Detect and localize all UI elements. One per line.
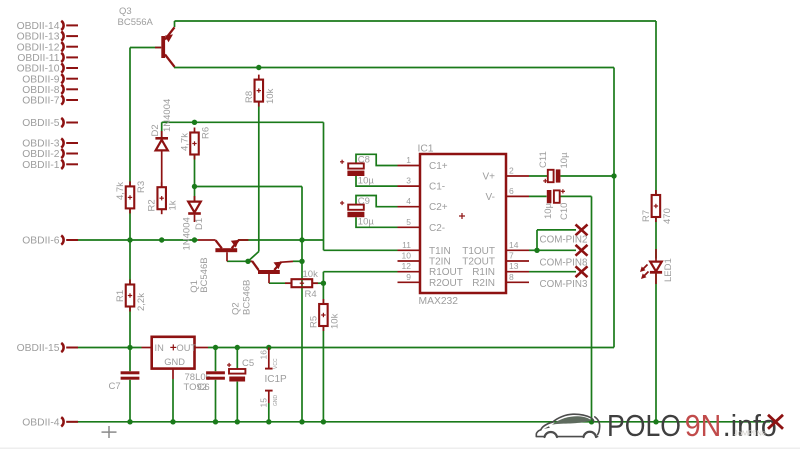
transistor Q1 BC546B — [215, 240, 248, 261]
svg-text:8: 8 — [509, 272, 514, 282]
connector pin OBDII-9 — [61, 74, 78, 83]
junction C5 top — [235, 345, 240, 350]
svg-text:C9: C9 — [358, 196, 370, 207]
wire R1IN net — [529, 271, 576, 273]
wire C6 leads — [215, 348, 217, 422]
svg-text:C2-: C2- — [429, 223, 445, 234]
capacitor C9 wiring — [356, 196, 398, 228]
wire COM-PIN2 net — [529, 230, 576, 250]
resistor R5 — [319, 299, 328, 331]
svg-text:R1OUT: R1OUT — [429, 267, 463, 278]
junction C6 top — [213, 345, 218, 350]
svg-text:1N4004: 1N4004 — [162, 99, 173, 132]
svg-text:Q2: Q2 — [230, 302, 241, 315]
capacitor C11 wiring — [529, 175, 614, 177]
svg-text:LED1: LED1 — [663, 258, 674, 282]
bottom faint separator line — [0, 447, 800, 449]
svg-text:C11: C11 — [538, 151, 549, 168]
svg-text:OBDII-6: OBDII-6 — [22, 236, 59, 247]
svg-text:470: 470 — [662, 208, 673, 224]
resistor R3 — [126, 181, 135, 213]
svg-text:4: 4 — [406, 196, 411, 206]
svg-text:R2IN: R2IN — [472, 278, 495, 289]
svg-text:R6: R6 — [201, 127, 212, 139]
svg-text:OBDII-7: OBDII-7 — [22, 96, 59, 107]
resistor R7 — [652, 190, 661, 222]
svg-text:11: 11 — [402, 240, 411, 250]
svg-text:T2IN: T2IN — [429, 257, 451, 268]
svg-text:15: 15 — [258, 398, 268, 408]
connector pin OBDII-3 — [61, 138, 78, 147]
ground plus marker — [102, 426, 117, 438]
logo car silhouette — [536, 414, 599, 437]
junction rail IC1P GND — [266, 419, 271, 424]
pin 4 stub — [398, 206, 421, 208]
connector pin OBDII-6 — [61, 235, 78, 244]
svg-text:10k: 10k — [265, 88, 276, 104]
svg-text:R7: R7 — [641, 210, 652, 222]
svg-text:D1: D1 — [194, 218, 205, 230]
capacitor C11 — [543, 169, 560, 183]
svg-text:COM-PIN3: COM-PIN3 — [540, 279, 588, 290]
junction IC1P VCC — [266, 345, 271, 350]
svg-text:OBDII-4: OBDII-4 — [22, 417, 59, 428]
wire Q2 base to R4 — [269, 282, 292, 284]
svg-text:IC1: IC1 — [418, 144, 434, 155]
junction rail R5 — [321, 419, 326, 424]
svg-text:6: 6 — [509, 186, 514, 196]
svg-text:OBDII-5: OBDII-5 — [22, 118, 59, 129]
junction R3 bottom — [127, 237, 132, 242]
capacitor C6 — [206, 371, 225, 379]
svg-text:10µ: 10µ — [358, 217, 375, 228]
svg-text:9: 9 — [406, 272, 411, 282]
svg-text:OBDII-12: OBDII-12 — [17, 42, 60, 53]
svg-text:COM-PIN2: COM-PIN2 — [540, 235, 588, 246]
svg-text:13: 13 — [509, 261, 519, 271]
svg-text:GND: GND — [164, 357, 185, 367]
LED1 — [640, 249, 662, 284]
svg-text:POLO: POLO — [607, 409, 681, 443]
junction R2 bottom — [159, 237, 164, 242]
svg-text:R1IN: R1IN — [472, 267, 495, 278]
junction C7 top — [127, 345, 132, 350]
junction rail C6 — [213, 419, 218, 424]
wire x130 column — [129, 209, 131, 348]
connector pin OBDII-1 — [61, 160, 78, 169]
svg-text:C10: C10 — [559, 203, 570, 220]
svg-text:T1IN: T1IN — [429, 246, 451, 257]
svg-text:OBDII-1: OBDII-1 — [22, 160, 59, 171]
pin 6 stub — [506, 195, 529, 197]
svg-text:10k: 10k — [329, 313, 340, 329]
junction Q1 base — [245, 259, 250, 264]
IC1P GND pin 15 — [265, 391, 273, 422]
svg-text:OBDII-9: OBDII-9 — [22, 74, 59, 85]
transistor Q3 BC556A — [155, 27, 175, 67]
svg-text:BC556A: BC556A — [118, 17, 154, 28]
junction C11 V+ x614 — [611, 173, 616, 178]
junction D1 R6 — [192, 184, 197, 189]
svg-text:1k: 1k — [168, 200, 179, 210]
svg-text:5: 5 — [406, 217, 411, 227]
X open end COM-PIN2 lower — [576, 245, 588, 256]
wire right vertical R7 net — [655, 21, 657, 422]
pin 12 stub — [398, 271, 421, 273]
svg-text:10µ: 10µ — [559, 152, 570, 169]
svg-text:OBDII-2: OBDII-2 — [22, 149, 59, 160]
svg-text:.info: .info — [723, 409, 777, 443]
pin 8 stub — [506, 281, 529, 283]
voltage regulator 78L05 box — [142, 337, 209, 369]
wire 78L05 GND lead — [172, 369, 174, 422]
wire D1 top net y186 — [195, 155, 303, 422]
wire R8 bottom to Q1 base diagonal — [248, 102, 259, 262]
svg-text:C6: C6 — [198, 382, 210, 393]
svg-text:V+: V+ — [482, 172, 495, 183]
svg-text:3: 3 — [406, 176, 411, 186]
svg-text:C5: C5 — [242, 358, 254, 369]
junction rail C7 — [127, 419, 132, 424]
svg-text:C8: C8 — [358, 155, 370, 166]
resistor R2 — [157, 182, 166, 214]
wire Q3 base net — [130, 48, 161, 188]
svg-text:R2: R2 — [147, 199, 158, 211]
connector pin OBDII-14 — [61, 21, 78, 30]
svg-text:IN: IN — [155, 343, 164, 353]
junction R4 R5 — [321, 281, 326, 286]
svg-text:12: 12 — [402, 261, 412, 271]
junction R6 top — [192, 120, 197, 125]
svg-text:VCC: VCC — [273, 358, 279, 369]
connector pin OBDII-2 — [61, 149, 78, 158]
svg-text:GND: GND — [273, 395, 279, 407]
junction rail 78L05 GND — [170, 419, 175, 424]
svg-text:7: 7 — [509, 251, 514, 261]
resistor R1 — [126, 280, 135, 312]
junction rail C5 — [235, 419, 240, 424]
pin 5 stub — [398, 226, 421, 228]
X open end R1IN — [576, 266, 588, 277]
pin 14 stub — [506, 249, 529, 251]
wire Q3 collector net — [174, 67, 614, 348]
svg-text:2,2k: 2,2k — [136, 293, 147, 311]
diode D1 1N4004 — [188, 196, 201, 222]
svg-text:10k: 10k — [303, 269, 319, 280]
svg-text:R3: R3 — [136, 181, 147, 193]
IC1P VCC pin 16 — [265, 348, 273, 369]
connector pin OBDII-12 — [61, 42, 78, 51]
svg-text:4,7k: 4,7k — [180, 133, 191, 151]
connector pin OBDII-7 — [61, 95, 78, 104]
svg-text:OBDII-8: OBDII-8 — [22, 85, 59, 96]
svg-text:MAX232: MAX232 — [419, 296, 459, 307]
pin 2 stub — [506, 175, 529, 177]
svg-text:OBDII-11: OBDII-11 — [17, 53, 59, 64]
junction rail x302 — [299, 419, 304, 424]
wire C5 leads — [236, 348, 238, 422]
diode D2 1N4004 — [155, 131, 168, 187]
svg-text:OBDII-14: OBDII-14 — [17, 21, 60, 32]
connector pin OBDII-11 — [61, 53, 78, 62]
svg-text:10: 10 — [402, 251, 412, 261]
connector pin OBDII-10 — [61, 63, 78, 72]
junction rail LED — [653, 419, 658, 424]
pin 10 stub — [398, 260, 421, 262]
78L05 origin cross — [170, 344, 176, 350]
svg-text:OBDII-3: OBDII-3 — [22, 139, 59, 150]
svg-text:C1-: C1- — [429, 182, 445, 193]
capacitor C8 — [340, 160, 364, 176]
svg-text:COM-PIN8: COM-PIN8 — [540, 258, 588, 269]
svg-text:IC1P: IC1P — [265, 374, 288, 385]
wire D2 R6 net y122 — [162, 122, 324, 240]
svg-text:R4: R4 — [305, 289, 317, 300]
svg-text:R1: R1 — [115, 290, 126, 302]
svg-text:OBDII-13: OBDII-13 — [17, 32, 60, 43]
svg-text:JoMPliNe: JoMPliNe — [734, 429, 766, 438]
resistor R4 — [285, 279, 318, 287]
capacitor C10 — [547, 189, 565, 203]
svg-text:BC546B: BC546B — [241, 280, 252, 315]
IC1 origin cross — [459, 213, 465, 219]
svg-text:10µ: 10µ — [543, 202, 554, 219]
svg-text:OBDII-15: OBDII-15 — [17, 343, 60, 354]
svg-text:OBDII-10: OBDII-10 — [17, 64, 60, 75]
svg-text:2: 2 — [509, 166, 514, 176]
wire Q3 emitter to top rail — [175, 21, 657, 27]
resistor R8 — [255, 75, 263, 107]
wire OBDII-15 VCC net — [77, 347, 614, 349]
capacitor C9 — [340, 201, 364, 217]
connector pin OBDII-8 — [61, 85, 78, 94]
junction Q2 emitter — [299, 259, 304, 264]
capacitor C10 wiring — [529, 195, 547, 197]
connector pin OBDII-13 — [61, 32, 78, 41]
IC1 MAX232 box — [420, 154, 506, 293]
svg-text:C2+: C2+ — [429, 202, 448, 213]
pin 9 stub — [398, 281, 421, 283]
pin 11 stub — [398, 249, 421, 251]
svg-text:C1+: C1+ — [429, 161, 448, 172]
wire Q1 base Q2 collector net — [227, 260, 253, 262]
svg-text:T2OUT: T2OUT — [462, 257, 495, 268]
capacitor C8 wiring — [356, 154, 398, 186]
svg-text:Q3: Q3 — [119, 6, 132, 17]
wire Q1 emitter net y240 — [239, 240, 398, 250]
svg-text:R2OUT: R2OUT — [429, 278, 463, 289]
svg-text:OUT: OUT — [177, 343, 197, 353]
svg-text:BC546B: BC546B — [199, 257, 210, 292]
junction COM-PIN2 — [534, 248, 539, 253]
connector pin OBDII-4 — [61, 417, 78, 426]
svg-text:10µ: 10µ — [358, 176, 375, 187]
pin 1 stub — [398, 165, 421, 167]
X open end ground rail — [768, 415, 783, 429]
wire ground rail — [67, 421, 771, 423]
resistor R6 — [190, 128, 199, 160]
svg-text:9N: 9N — [685, 409, 722, 443]
capacitor C7 — [121, 371, 140, 379]
svg-text:16: 16 — [258, 350, 268, 360]
svg-text:V-: V- — [486, 192, 495, 203]
svg-text:4,7k: 4,7k — [115, 182, 126, 200]
svg-text:C7: C7 — [109, 381, 121, 392]
pin 13 stub — [506, 271, 529, 273]
capacitor C5 — [227, 363, 245, 382]
svg-text:D2: D2 — [150, 124, 161, 136]
junction rail x592 — [589, 419, 594, 424]
wire C7 leads — [129, 348, 131, 422]
svg-text:1: 1 — [406, 155, 411, 165]
junction R8 top — [256, 65, 261, 70]
pin 7 stub — [506, 260, 529, 262]
connector pin OBDII-5 — [61, 118, 78, 127]
wire V- net x592 — [560, 196, 591, 421]
wire OBDII-6 net — [67, 239, 216, 241]
pin 3 stub — [398, 185, 421, 187]
svg-text:14: 14 — [509, 240, 519, 250]
junction D1 bottom — [192, 237, 197, 242]
X open end COM-PIN2 upper — [576, 225, 588, 236]
transistor Q2 BC546B — [252, 261, 293, 283]
wire R5 leads — [322, 283, 324, 422]
wire R4 right to pin12 net — [312, 272, 397, 284]
junction x302 y240 — [299, 237, 304, 242]
svg-text:1N4004: 1N4004 — [181, 217, 192, 250]
svg-text:T1OUT: T1OUT — [462, 246, 495, 257]
svg-text:R8: R8 — [244, 91, 255, 103]
connector pin OBDII-15 — [61, 343, 78, 352]
wire Q2 emitter to x302 — [293, 260, 302, 262]
svg-text:R5: R5 — [308, 316, 319, 328]
